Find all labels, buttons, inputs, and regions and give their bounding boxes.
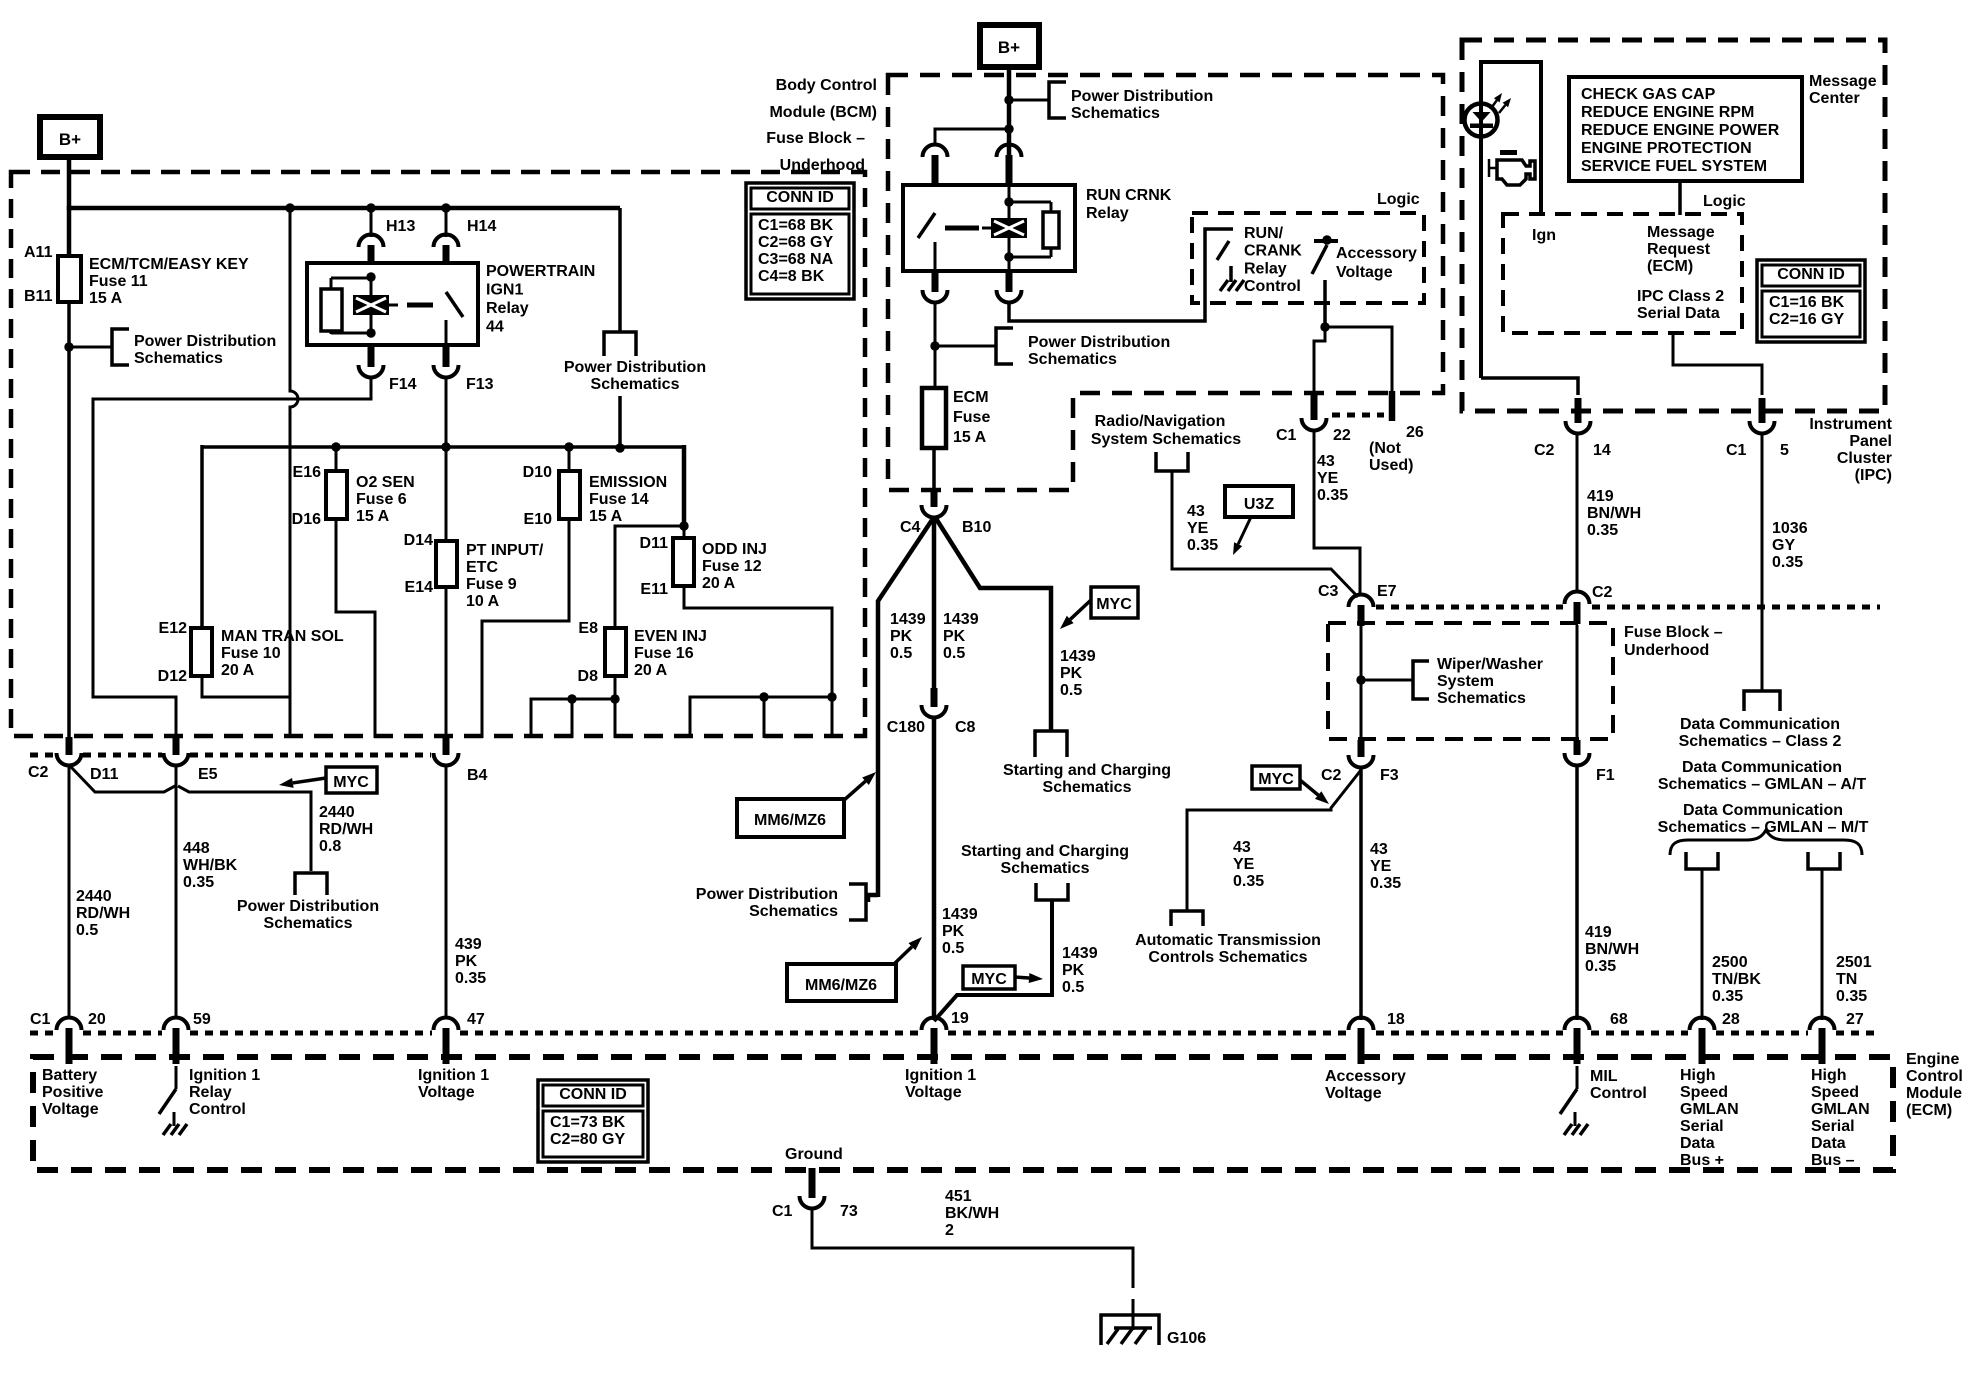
wire oddinj pin row	[690, 697, 832, 738]
svg-text:REDUCE ENGINE POWER: REDUCE ENGINE POWER	[1581, 122, 1780, 139]
connector C180/C8	[922, 705, 947, 718]
svg-text:YE: YE	[1317, 470, 1339, 487]
svg-text:B4: B4	[467, 767, 488, 784]
svg-text:Used): Used)	[1369, 457, 1413, 474]
off-page ref Automatic Transmission	[1171, 911, 1203, 926]
svg-text:2500: 2500	[1712, 954, 1748, 971]
svg-text:POWERTRAIN: POWERTRAIN	[486, 263, 595, 280]
relay K44 switch blade	[446, 292, 463, 317]
svg-text:0.35: 0.35	[455, 970, 486, 987]
wire D11 to pin20	[68, 764, 71, 1019]
svg-text:PK: PK	[942, 923, 965, 940]
connector C1/20	[57, 1018, 82, 1031]
svg-text:439: 439	[455, 936, 482, 953]
wire S&C2 down to pin19	[934, 900, 1052, 1021]
wire F3 branch to AT ref	[1187, 770, 1361, 911]
svg-text:Ign: Ign	[1532, 227, 1556, 244]
svg-text:Wiper/Washer: Wiper/Washer	[1437, 656, 1543, 673]
svg-text:IPC Class 2: IPC Class 2	[1637, 288, 1724, 305]
svg-text:Speed: Speed	[1811, 1084, 1859, 1101]
svg-text:GMLAN: GMLAN	[1680, 1101, 1739, 1118]
svg-text:Instrument: Instrument	[1809, 416, 1892, 433]
U3Z arrow	[1238, 517, 1251, 544]
relay K44 coil wire bottom	[370, 314, 373, 334]
svg-text:0.35: 0.35	[1317, 487, 1348, 504]
svg-text:Data Communication: Data Communication	[1683, 802, 1843, 819]
svg-text:D10: D10	[523, 464, 552, 481]
svg-text:C2: C2	[1321, 767, 1342, 784]
svg-text:TN: TN	[1836, 971, 1857, 988]
svg-text:26: 26	[1406, 424, 1424, 441]
off-page ref Radio/Navigation	[1156, 452, 1188, 471]
connector BCM relay pin A	[923, 145, 948, 158]
svg-text:Voltage: Voltage	[1325, 1085, 1382, 1102]
off-page ref Power Distribution 2	[295, 873, 327, 895]
curly brace	[1670, 830, 1862, 855]
svg-text:Relay: Relay	[1244, 260, 1287, 277]
svg-text:Fuse Block –: Fuse Block –	[1624, 624, 1723, 641]
svg-text:A11: A11	[24, 244, 53, 261]
wire fuse11 feed	[67, 206, 72, 258]
U3Z box	[1225, 486, 1293, 517]
wire below fuse16	[614, 676, 617, 699]
svg-text:Speed: Speed	[1680, 1084, 1728, 1101]
svg-text:10 A: 10 A	[466, 593, 500, 610]
svg-text:Voltage: Voltage	[905, 1084, 962, 1101]
connector H13	[359, 235, 384, 247]
svg-text:0.35: 0.35	[1772, 554, 1803, 571]
svg-text:0.5: 0.5	[1062, 979, 1084, 996]
off-page ref Power Distribution 1	[112, 329, 129, 365]
svg-text:ECM/TCM/EASY KEY: ECM/TCM/EASY KEY	[89, 256, 249, 273]
wire below fuse12	[684, 586, 832, 697]
svg-text:High: High	[1680, 1067, 1716, 1084]
off-page ref Wiper/Washer	[1413, 661, 1429, 699]
svg-text:PT INPUT/: PT INPUT/	[466, 542, 544, 559]
svg-text:Cluster: Cluster	[1837, 450, 1892, 467]
svg-text:YE: YE	[1233, 856, 1255, 873]
svg-text:MM6/MZ6: MM6/MZ6	[754, 812, 826, 829]
svg-text:YE: YE	[1370, 858, 1392, 875]
svg-text:73: 73	[840, 1203, 858, 1220]
connector 18	[1349, 1018, 1374, 1031]
connector C2/D11	[57, 753, 82, 766]
svg-text:MAN TRAN SOL: MAN TRAN SOL	[221, 628, 344, 645]
svg-text:Control: Control	[189, 1101, 246, 1118]
CONN ID table (IPC)	[1757, 260, 1865, 342]
relay RUN CRNK dashed link	[945, 226, 979, 231]
svg-text:Relay: Relay	[1086, 205, 1129, 222]
fuse F6 O2 SEN	[326, 471, 347, 519]
svg-text:Ignition 1: Ignition 1	[418, 1067, 489, 1084]
node bus2/F13	[441, 442, 450, 451]
off-page ref Data Communication	[1744, 691, 1780, 711]
wire eveninj pin row	[531, 699, 615, 738]
svg-text:RD/WH: RD/WH	[76, 905, 130, 922]
svg-text:E8: E8	[578, 620, 598, 637]
svg-text:C2: C2	[1534, 442, 1555, 459]
svg-text:C1=68 BK: C1=68 BK	[758, 217, 834, 234]
relay K44 resistor loop bottom	[330, 330, 333, 334]
svg-text:MYC: MYC	[333, 774, 369, 791]
svg-text:ETC: ETC	[466, 559, 498, 576]
svg-text:C4=8 BK: C4=8 BK	[758, 268, 825, 285]
svg-text:Control: Control	[1244, 278, 1301, 295]
svg-text:PK: PK	[943, 628, 966, 645]
svg-text:BN/WH: BN/WH	[1587, 505, 1641, 522]
wire below fuse11	[67, 302, 71, 742]
svg-text:ENGINE PROTECTION: ENGINE PROTECTION	[1581, 140, 1752, 157]
wire B+2 down	[1007, 67, 1012, 203]
svg-text:Bus +: Bus +	[1680, 1152, 1724, 1169]
svg-text:MYC: MYC	[1258, 771, 1294, 788]
relay K44 coil	[353, 295, 389, 315]
svg-text:Schematics – Class 2: Schematics – Class 2	[1679, 733, 1842, 750]
svg-text:Schematics: Schematics	[749, 903, 838, 920]
svg-text:Controls Schematics: Controls Schematics	[1148, 949, 1307, 966]
svg-text:15 A: 15 A	[356, 508, 390, 525]
svg-text:Data: Data	[1680, 1135, 1715, 1152]
off-page ref Starting and Charging 1	[1035, 731, 1067, 757]
svg-text:Logic: Logic	[1703, 193, 1746, 210]
svg-text:BK/WH: BK/WH	[945, 1205, 999, 1222]
wire to PD ref 6	[935, 345, 996, 348]
wire V split left	[878, 517, 934, 897]
ground RUN/CRANK relay control	[1229, 266, 1233, 282]
svg-text:43: 43	[1233, 839, 1251, 856]
connector BCM relay pin D	[997, 290, 1022, 303]
svg-text:Automatic Transmission: Automatic Transmission	[1135, 932, 1321, 949]
connector C1/73	[800, 1196, 825, 1209]
indicator LED arrows	[1492, 100, 1497, 107]
svg-text:E10: E10	[524, 511, 553, 528]
svg-text:Fuse Block –: Fuse Block –	[766, 130, 865, 147]
svg-text:D12: D12	[158, 668, 187, 685]
svg-text:0.35: 0.35	[1836, 988, 1867, 1005]
svg-text:20 A: 20 A	[702, 575, 736, 592]
svg-text:Power Distribution: Power Distribution	[134, 333, 276, 350]
ECM connector row dotted line	[30, 1031, 55, 1036]
svg-text:C2: C2	[1592, 584, 1613, 601]
MM6/MZ6 box 1	[737, 799, 844, 837]
Message Center dashed box	[1462, 40, 1885, 411]
connector 28	[1690, 1018, 1715, 1031]
BCM dashed box	[888, 75, 1443, 490]
node bus/H14	[441, 203, 450, 212]
MYC arrow 2	[1070, 600, 1091, 619]
connector F1	[1565, 753, 1590, 766]
svg-text:RD/WH: RD/WH	[319, 821, 373, 838]
svg-text:47: 47	[467, 1011, 485, 1028]
wire fuse9 feed	[445, 447, 448, 542]
svg-text:E14: E14	[405, 579, 434, 596]
engine icon	[1500, 150, 1517, 155]
wire LED bottom to C2 pin	[1481, 378, 1578, 395]
svg-text:0.5: 0.5	[943, 645, 965, 662]
svg-text:Schematics: Schematics	[264, 915, 353, 932]
wire O2SEN fuse feed	[335, 447, 338, 473]
connector E5	[164, 753, 189, 766]
svg-text:REDUCE ENGINE RPM: REDUCE ENGINE RPM	[1581, 104, 1754, 121]
svg-text:Module: Module	[1906, 1085, 1962, 1102]
svg-text:C2=68 GY: C2=68 GY	[758, 234, 833, 251]
ignition1 relay control ground	[173, 1112, 176, 1126]
svg-text:Schematics: Schematics	[1071, 105, 1160, 122]
wire below fuse9 to B4	[445, 587, 448, 740]
svg-text:Ignition 1: Ignition 1	[189, 1067, 260, 1084]
connector C2 (row2)	[1565, 592, 1590, 605]
MYC box 1	[326, 767, 377, 793]
row dotted line 22-26	[1332, 413, 1384, 418]
svg-text:Schematics: Schematics	[134, 350, 223, 367]
row2 dotted line	[1376, 605, 1563, 610]
svg-text:C2: C2	[28, 764, 49, 781]
CONN ID table (ECM)	[538, 1080, 648, 1162]
fuse F9 PT INPUT/ETC	[436, 541, 457, 587]
svg-text:GMLAN: GMLAN	[1811, 1101, 1870, 1118]
MYC box 2	[1091, 587, 1138, 618]
relay K44 coil wire top	[370, 277, 373, 296]
svg-text:Message: Message	[1647, 224, 1715, 241]
svg-text:0.35: 0.35	[1187, 537, 1218, 554]
wire accessory down	[1323, 301, 1327, 327]
svg-text:SERVICE FUEL SYSTEM: SERVICE FUEL SYSTEM	[1581, 158, 1767, 175]
svg-text:G106: G106	[1167, 1330, 1206, 1347]
wire below fuse14	[482, 519, 569, 738]
svg-text:Body Control: Body Control	[776, 77, 877, 94]
wire D11 diagonal to E5	[70, 766, 175, 792]
svg-text:Accessory: Accessory	[1336, 245, 1417, 262]
svg-text:Power Distribution: Power Distribution	[1028, 334, 1170, 351]
svg-text:0.35: 0.35	[1712, 988, 1743, 1005]
svg-text:Voltage: Voltage	[42, 1101, 99, 1118]
svg-text:Fuse 12: Fuse 12	[702, 558, 762, 575]
svg-text:High: High	[1811, 1067, 1847, 1084]
svg-text:419: 419	[1587, 488, 1614, 505]
svg-text:44: 44	[486, 319, 504, 336]
svg-text:Schematics – GMLAN – A/T: Schematics – GMLAN – A/T	[1658, 776, 1867, 793]
relay K44 dashed link	[407, 303, 433, 308]
svg-text:Serial: Serial	[1680, 1118, 1724, 1135]
svg-text:Message: Message	[1809, 73, 1877, 90]
svg-text:0.35: 0.35	[1233, 873, 1264, 890]
svg-text:CHECK GAS CAP: CHECK GAS CAP	[1581, 86, 1716, 103]
connector E7	[1349, 595, 1374, 608]
svg-text:C1=16 BK: C1=16 BK	[1769, 294, 1845, 311]
connector F14	[359, 365, 384, 377]
wire to PD ref 1	[69, 346, 112, 349]
B+ power symbol (middle)	[980, 25, 1039, 67]
svg-text:0.35: 0.35	[1587, 522, 1618, 539]
svg-text:19: 19	[951, 1010, 969, 1027]
svg-text:Underhood: Underhood	[1624, 642, 1709, 659]
svg-text:MIL: MIL	[1590, 1068, 1618, 1085]
relay K44 resistor loop top	[331, 277, 371, 280]
svg-text:0.5: 0.5	[942, 940, 964, 957]
svg-text:F1: F1	[1596, 767, 1615, 784]
node bus2/O2	[331, 442, 340, 451]
svg-text:Schematics: Schematics	[1437, 690, 1526, 707]
svg-text:Relay: Relay	[189, 1084, 232, 1101]
connector row C2 dotted line	[30, 753, 55, 758]
wire F14 runout	[93, 376, 371, 742]
relay RUN CRNK resistor loop	[1009, 201, 1051, 204]
svg-text:Accessory: Accessory	[1325, 1068, 1406, 1085]
svg-text:20: 20	[88, 1011, 106, 1028]
fuse F11 ECM/TCM/EASY KEY	[58, 256, 81, 302]
wire H13 from bus	[370, 208, 373, 237]
node PD tap	[64, 342, 73, 351]
MM6/MZ6 arrow 2	[893, 947, 912, 965]
svg-text:IGN1: IGN1	[486, 282, 523, 299]
svg-text:MYC: MYC	[1096, 596, 1132, 613]
svg-text:Request: Request	[1647, 241, 1711, 258]
wire E5 down to pin59	[175, 764, 178, 1019]
wire F13 down to bus2	[445, 376, 448, 447]
relay RUN CRNK switch blade	[918, 213, 935, 238]
svg-text:5: 5	[1780, 442, 1789, 459]
wire GMLAN+ down	[1701, 869, 1704, 1020]
svg-text:59: 59	[193, 1011, 211, 1028]
wire E5 junction to PD2	[178, 786, 311, 871]
svg-text:YE: YE	[1187, 520, 1209, 537]
wire left branch to relay	[935, 129, 1009, 146]
off-page ref Power Distribution 6	[996, 328, 1013, 364]
svg-text:C4: C4	[900, 519, 921, 536]
wire fuse12 feed	[683, 526, 686, 539]
svg-text:D8: D8	[578, 668, 599, 685]
MC logic dashed box	[1503, 214, 1742, 333]
connector 47	[434, 1018, 459, 1031]
MIL control switch	[1576, 1066, 1579, 1089]
fuse F12 ODD INJ	[673, 538, 694, 586]
svg-text:Fuse 6: Fuse 6	[356, 491, 407, 508]
svg-text:1439: 1439	[1060, 648, 1096, 665]
wire GMLAN- down	[1821, 869, 1824, 1020]
svg-text:451: 451	[945, 1188, 972, 1205]
MYC arrow 3	[1015, 977, 1029, 978]
svg-text:Positive: Positive	[42, 1084, 103, 1101]
relay RUN CRNK box	[903, 185, 1075, 271]
wire 14 through box	[1576, 625, 1579, 744]
svg-text:Schematics: Schematics	[1028, 351, 1117, 368]
relay K44 switch lower contact	[445, 320, 448, 345]
svg-text:System: System	[1437, 673, 1494, 690]
wire to eveninj	[615, 526, 684, 629]
svg-text:Data: Data	[1811, 1135, 1846, 1152]
svg-text:F3: F3	[1380, 767, 1399, 784]
svg-text:Ground: Ground	[785, 1146, 843, 1163]
wire LED top loop	[1481, 62, 1541, 378]
svg-text:Data Communication: Data Communication	[1682, 759, 1842, 776]
svg-text:2440: 2440	[76, 888, 112, 905]
svg-text:0.5: 0.5	[76, 922, 98, 939]
wire relay to logic box	[1009, 229, 1233, 321]
svg-text:MYC: MYC	[971, 971, 1007, 988]
svg-text:Starting and Charging: Starting and Charging	[1003, 762, 1171, 779]
wire E7 down	[1360, 625, 1363, 742]
wire PD-A to bus2	[618, 396, 622, 448]
svg-text:Data Communication: Data Communication	[1680, 716, 1840, 733]
svg-text:Power Distribution: Power Distribution	[1071, 88, 1213, 105]
svg-text:U3Z: U3Z	[1244, 496, 1274, 513]
wire C8 down to pin19	[932, 716, 937, 1020]
svg-text:18: 18	[1387, 1011, 1405, 1028]
accessory voltage switch	[1314, 239, 1338, 243]
svg-text:C3: C3	[1318, 583, 1339, 600]
svg-text:E11: E11	[640, 581, 668, 598]
svg-text:1439: 1439	[942, 906, 978, 923]
svg-text:H13: H13	[386, 218, 415, 235]
node eveninj pins	[567, 694, 576, 703]
svg-text:(ECM): (ECM)	[1906, 1102, 1952, 1119]
RUN/CRANK relay control switch	[1217, 241, 1229, 260]
relay RUN CRNK coil wires	[1008, 186, 1011, 219]
svg-text:1439: 1439	[943, 611, 979, 628]
node bus2/emission	[564, 442, 573, 451]
svg-text:419: 419	[1585, 924, 1612, 941]
off-page ref Power Distribution 3	[849, 884, 866, 920]
wire H14 from bus	[445, 208, 448, 237]
connector 19	[922, 1018, 947, 1031]
svg-text:Schematics: Schematics	[1043, 779, 1132, 796]
svg-text:2501: 2501	[1836, 954, 1872, 971]
node wiper tap	[1356, 675, 1365, 684]
svg-text:0.35: 0.35	[1585, 958, 1616, 975]
node ECM fuse PD tap	[930, 341, 939, 350]
bus from B+ (top-left)	[67, 206, 620, 211]
svg-text:C180: C180	[887, 719, 925, 736]
wire to wiper ref	[1361, 679, 1413, 682]
wire bus2 right drop	[682, 445, 687, 527]
connector H14	[434, 235, 459, 248]
node B+2/PD	[1004, 95, 1013, 104]
svg-text:RUN CRNK: RUN CRNK	[1086, 187, 1172, 204]
svg-text:C3=68 NA: C3=68 NA	[758, 251, 834, 268]
svg-text:D16: D16	[292, 511, 321, 528]
svg-text:Control: Control	[1590, 1085, 1647, 1102]
svg-text:PK: PK	[1060, 665, 1083, 682]
node bus2/pd	[615, 443, 624, 452]
svg-text:TN/BK: TN/BK	[1712, 971, 1761, 988]
svg-text:Fuse 16: Fuse 16	[634, 645, 694, 662]
wire 5 down to ref	[1761, 432, 1764, 690]
svg-text:(IPC): (IPC)	[1855, 467, 1892, 484]
svg-text:PK: PK	[1062, 962, 1085, 979]
wire radio/nav to E7	[1172, 471, 1358, 597]
indicator LED diode	[1473, 112, 1491, 122]
svg-text:Panel: Panel	[1849, 433, 1892, 450]
off-page ref GMLAN bus-	[1808, 852, 1840, 869]
svg-text:28: 28	[1722, 1011, 1740, 1028]
svg-text:D11: D11	[90, 766, 119, 783]
wire F1 down to pin68	[1575, 764, 1579, 1020]
svg-text:F13: F13	[466, 376, 494, 393]
relay RUN CRNK switch contact	[934, 242, 937, 271]
wire EMISSION fuse feed	[568, 447, 571, 473]
svg-text:RUN/: RUN/	[1244, 225, 1284, 242]
svg-text:Ignition 1: Ignition 1	[905, 1067, 976, 1084]
wiper/washer fuse block dashed box	[1328, 623, 1613, 739]
fuse F10 MAN TRAN SOL	[191, 628, 212, 676]
svg-text:Battery: Battery	[42, 1067, 97, 1084]
svg-text:CONN ID: CONN ID	[559, 1086, 627, 1103]
svg-text:Fuse 10: Fuse 10	[221, 645, 281, 662]
svg-text:Schematics: Schematics	[591, 376, 680, 393]
svg-text:E16: E16	[293, 464, 322, 481]
svg-text:EVEN INJ: EVEN INJ	[634, 628, 707, 645]
ECM dashed box	[33, 1057, 1893, 1170]
